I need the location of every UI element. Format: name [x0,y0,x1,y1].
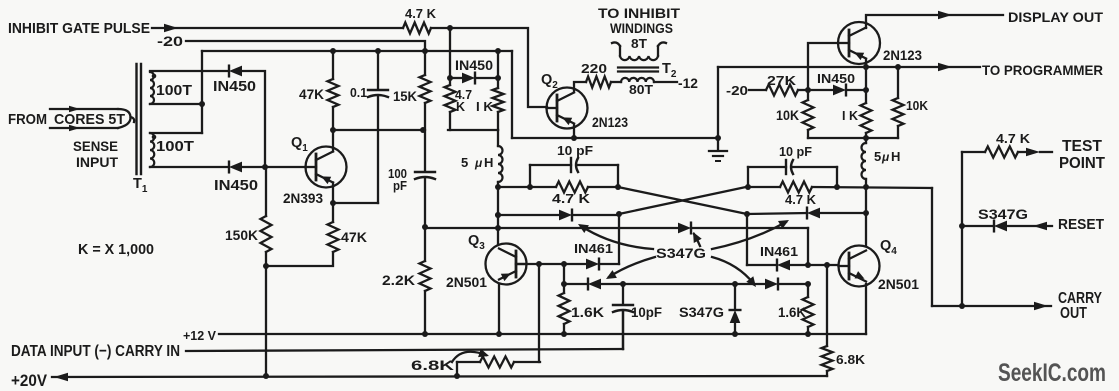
watermark [998,359,1106,387]
value label 4.7K left mid [552,191,591,206]
label Q2 [541,72,558,91]
svg-text:220: 220 [581,61,607,76]
wire to programmer rail [718,63,980,138]
junction bottom row 1.6K left [561,281,567,287]
wire Q1 collector [332,130,334,152]
svg-text:1.6K: 1.6K [778,305,806,320]
svg-text:+20V: +20V [11,372,47,390]
capacitor 10pF bottom [613,284,633,349]
diode 1N450 right [833,85,846,96]
wire Q4 base row [747,264,777,266]
wire right diode row [808,89,866,91]
svg-text:10K: 10K [906,98,929,113]
svg-text:I K: I K [842,108,859,123]
svg-text:IN461: IN461 [574,241,613,256]
diode S347G reset [994,221,1007,232]
junction 1.6K right bottom [805,331,811,337]
junction 6.8K on 20V [454,373,460,379]
capacitor 10pF left [530,158,618,187]
svg-text:INHIBIT GATE PULSE: INHIBIT GATE PULSE [8,20,150,37]
svg-text:SENSE: SENSE [73,138,118,154]
diode S347G middle [678,223,691,234]
value label S347G center [656,245,706,261]
value label 150K [225,227,258,243]
svg-text:150K: 150K [225,227,258,243]
svg-text:15K: 15K [393,89,417,104]
wire carry feed [931,188,933,306]
label 2N501 Q4 [878,276,919,292]
resistor 6.8K right [822,265,833,376]
svg-text:27K: 27K [767,73,797,88]
node TO INHIBIT WINDINGS label [598,5,680,36]
junction bottom row 10pF [620,281,626,287]
svg-text:pF: pF [393,178,407,193]
svg-text:DISPLAY OUT: DISPLAY OUT [1008,9,1103,25]
svg-text:CORES 5T: CORES 5T [54,111,125,128]
value label 10K b [906,98,929,113]
diode 1N450 box [462,73,475,84]
wire 1N461 left to corner [599,263,619,265]
transformer T2 primary 8T [612,42,666,60]
wire ground stub [717,138,719,150]
svg-text:4.7 K: 4.7 K [552,191,591,206]
svg-text:POINT: POINT [1059,155,1106,172]
wire net B row [748,186,780,188]
svg-text:10 pF: 10 pF [779,144,812,159]
callout arrow to upper-right diode [712,220,789,249]
node -20 left label [157,34,183,49]
inductor 5uH right [862,138,867,187]
junction 150K-47K [263,263,269,269]
wire carry out row [932,302,1051,310]
junction bottom row s347g [732,281,738,287]
junction 27K node [805,87,811,93]
node RESET label [1058,216,1104,233]
wire left diode row right [572,214,619,216]
wire Q1 collector row [333,129,423,131]
value label 4.7K right mid [785,192,817,207]
junction right diode row right [863,210,869,216]
wire reset row b [1007,222,1052,230]
svg-text:SeekIC.com: SeekIC.com [998,359,1106,387]
wire -20 rail [186,41,425,51]
wire left diode row [498,214,559,216]
resistor 15K [420,51,431,130]
wire cross diagonal D1 [619,187,746,214]
node DISPLAY OUT label [1008,9,1103,25]
svg-text:-20: -20 [157,34,183,49]
diode bottom right [765,279,778,290]
wire Q5 emitter [865,59,867,67]
svg-text:2.2K: 2.2K [382,272,415,288]
node +12V label [183,328,216,343]
node +20V label [11,372,47,390]
svg-text:WINDINGS: WINDINGS [610,20,673,36]
wire 1N461 right to base [790,264,838,266]
resistor 2.2K [420,227,431,334]
transformer T1 winding 100T upper [150,71,228,104]
svg-text:10pF: 10pF [631,304,662,320]
junction 10K b top [895,64,901,70]
diode 1N461 left [586,259,599,270]
svg-text:FROM: FROM [8,111,47,128]
svg-text:2N123: 2N123 [883,47,922,63]
label Q3 [468,233,485,252]
junction carry node [959,303,965,309]
junction 10pF left bottom [527,184,533,190]
svg-text:IN450: IN450 [213,79,256,95]
label T1 [133,176,148,195]
resistor 220 [586,77,611,88]
wire test point row [962,148,1052,156]
value label 47K lower [341,229,367,245]
value label 8T [631,36,647,51]
diode 1N450 upper-left [229,66,242,77]
resistor 10K a [803,90,814,138]
callout arrow to lower-left diode [606,257,655,279]
junction box left [447,75,453,81]
value label 0.1 [350,85,367,100]
diode 1N461 upper-left net [559,210,572,221]
callout arrow to middle diode [693,232,702,246]
junction net B inductor [863,184,869,190]
label Q4 [880,238,897,257]
svg-text:IN450: IN450 [214,178,258,194]
value label 5uH right [874,149,900,164]
value label 1N461 right [760,244,798,259]
svg-text:I K: I K [476,100,493,114]
wire center tap to top rail [201,51,203,133]
wire bottom row left [564,283,588,285]
svg-text:OUT: OUT [1060,305,1087,322]
value label 15K [393,89,417,104]
transistor Q2 [547,88,588,129]
value label 4.7K test [996,131,1031,146]
wire display out [866,11,1003,28]
capacitor 10pF right [748,160,837,187]
callout arrow 6.8K [452,349,489,362]
junction right diode row left [744,211,750,217]
svg-text:6.8K: 6.8K [411,357,454,373]
diode bottom left [588,279,601,290]
value label 1N461 left [574,241,613,256]
wire test point column [961,152,963,306]
label Q1 [291,135,308,154]
capacitor 100pF [415,130,435,227]
value label 10pF left [557,143,593,158]
resistor 4.7K top [403,23,431,34]
transformer T2 secondary 80T [611,78,677,82]
diode 1N461 right [777,260,790,271]
wire Q3 base row [516,263,586,265]
node -12 label [678,75,698,91]
resistor 6.8K left [457,357,540,377]
svg-text:47K: 47K [341,229,367,245]
wire box bottom rail [448,129,498,131]
svg-text:2N501: 2N501 [878,276,919,292]
value label 27K [767,73,797,88]
junction bottom row right [805,281,811,287]
wire reset row [962,225,994,227]
node TO PROGRAMMER label [982,62,1103,78]
svg-text:IN450: IN450 [817,71,855,86]
svg-text:-12: -12 [678,75,698,91]
resistor 10K b [893,67,904,138]
resistor 47K upper [328,51,339,130]
wire inhibit gate pulse line [152,24,403,32]
junction 100pF bottom [422,224,428,230]
wire Q5 base [808,43,838,90]
capacitor 0.1 [368,51,388,203]
junction net B left [745,184,751,190]
wire right col down [746,214,748,265]
node DATA INPUT label [11,343,180,360]
value label 10pF bottom [631,304,662,320]
svg-text:μ: μ [881,150,890,164]
svg-text:H: H [484,155,493,170]
node INHIBIT GATE PULSE label [8,20,150,37]
junction left diode row left [495,212,501,218]
junction box right [495,75,501,81]
wire Q4 collector vertical [865,187,867,246]
value label 100pF [388,166,407,193]
svg-text:2N501: 2N501 [446,274,487,290]
svg-text:TO INHIBIT: TO INHIBIT [598,5,680,21]
diode 1N450 pair right [807,208,820,219]
node SENSE INPUT label [73,138,118,170]
wire cross diagonal D2 [618,187,747,214]
label T2 [662,61,677,80]
label 2N393 [283,190,323,206]
polarity dot upper winding [152,74,157,79]
node -20 right label [726,84,748,98]
junction rail 47K [330,48,336,54]
wire net B row right [812,187,932,188]
value label 10K a [776,108,799,123]
value label S347G reset [978,206,1028,222]
resistor 1.6K right [803,284,814,334]
junction Q3 vert S row [495,225,501,231]
label 2N501 Q3 [446,274,487,290]
svg-text:-20: -20 [726,84,748,98]
resistor 4.7K left mid [556,182,588,193]
svg-text:47K: 47K [299,86,324,102]
node FROM CORES 5T label [8,111,125,128]
junction top 4.7K node [447,25,453,31]
wire inhibit line to Q2 base [431,28,547,107]
junction 1.6K left bottom [561,331,567,337]
wire Q3 emitter [498,284,500,334]
value label 6.8K left [411,357,454,373]
svg-text:K: K [456,100,465,114]
svg-text:IN450: IN450 [455,57,493,73]
node TEST POINT label [1059,138,1106,172]
junction Q5 emitter [863,64,869,70]
value label 100T lower [156,139,194,155]
resistor 1K box [493,51,504,130]
svg-text:8T: 8T [631,36,647,51]
svg-text:μ: μ [474,156,483,170]
junction Q3 emitter bottom [496,331,502,337]
junction left diode row right [616,211,622,217]
wire right diode row b [820,212,866,214]
svg-text:4.7 K: 4.7 K [785,192,817,207]
junction base node [262,164,268,170]
wire Q3 vertical [497,187,499,245]
junction rail 15K [422,48,428,54]
resistor 1.6K left [559,293,570,334]
value label 1N450 lower-left [214,178,258,194]
callout arrow to lower-right diode [712,257,756,287]
label 2N123 right [883,47,922,63]
value label 10pF right [779,144,812,159]
junction right diode-1K node [863,87,869,93]
junction S347G bottom node [732,331,738,337]
value label 1.6K right [778,305,806,320]
resistor 1K right [861,90,872,138]
ground symbol [709,151,727,161]
wire right end drop [807,228,809,265]
wire emitter to 0.1 cap [333,202,378,204]
value label 1.6K left [571,304,604,320]
junction 1K bottom [863,135,869,141]
svg-text:TO PROGRAMMER: TO PROGRAMMER [982,62,1103,78]
value label 4.7K box [455,88,472,114]
value label 100T upper [156,83,192,99]
value label 1N450 box [455,57,493,73]
value label 1N450 right [817,71,855,86]
value label 47K upper [299,86,324,102]
callout arrow to upper-left diode [578,224,653,249]
wire left col down [618,214,620,264]
svg-text:100T: 100T [156,139,194,155]
value label 1K right [842,108,859,123]
svg-text:6.8K: 6.8K [836,352,866,367]
svg-text:RESET: RESET [1058,216,1104,233]
wire emitter to diode node [865,67,867,90]
resistor 4.7K test [985,147,1018,158]
svg-text:2N123: 2N123 [592,114,628,130]
value label 1N450 upper-left [213,79,256,95]
junction center tap [199,101,205,107]
svg-text:4.7 K: 4.7 K [996,131,1031,146]
resistor 47K lower [266,203,339,266]
junction Q2 emitter [571,135,577,141]
wire bottom row mid [601,283,765,285]
wire rail drop to Q2 emitter line [511,51,513,138]
wire Q2 collector [574,82,586,92]
junction Q3 base a [536,261,542,267]
wire 1N450 box row [450,77,498,79]
resistor 4.7K right mid [780,182,812,193]
svg-text:10 pF: 10 pF [557,143,593,158]
wire bottom row right [778,283,808,285]
transistor Q1 [306,147,347,188]
svg-text:DATA INPUT (−) CARRY IN: DATA INPUT (−) CARRY IN [11,343,180,360]
svg-text:S347G: S347G [679,304,724,320]
svg-text:IN461: IN461 [760,244,798,259]
svg-text:2N393: 2N393 [283,190,323,206]
junction reset node [959,223,965,229]
inductor 5uH left [498,130,503,187]
junction Q3 base b [561,261,567,267]
svg-text:0.1: 0.1 [350,85,367,100]
svg-text:4.7 K: 4.7 K [405,7,436,21]
polarity dot lower winding [152,135,157,140]
junction net A right [615,184,621,190]
svg-text:TEST: TEST [1062,138,1103,155]
value label 80T [629,82,653,97]
svg-text:H: H [891,149,900,164]
wire +12V rail [219,333,866,335]
diode S347G bottom [730,284,741,334]
svg-text:5: 5 [461,155,468,170]
wire Q1 emitter [332,183,334,204]
wire 1.6K left vertical [563,264,565,293]
wire 4.7K left to right node [588,186,618,188]
wire Q2 emitter [573,124,575,138]
svg-text:1.6K: 1.6K [571,304,604,320]
wire Q1 base [243,166,306,168]
transformer T1 winding 100T lower [150,133,228,167]
svg-text:100T: 100T [156,83,192,99]
junction 2.2K bottom [422,331,428,337]
junction Q1 collector [330,127,336,133]
junction Q4 base b [824,262,830,268]
wire Q2 emitter rail [512,137,718,139]
value label S347G bottom [679,304,724,320]
resistor 27K [766,85,808,96]
value label 5uH left [461,155,493,170]
wire 6.8K left riser [538,264,540,362]
svg-text:INPUT: INPUT [76,154,118,170]
junction rail 0.1 [375,48,381,54]
junction Q1 emitter [330,200,336,206]
label 2N123 Q2 [592,114,628,130]
wire +20V rail [52,373,827,381]
svg-text:80T: 80T [629,82,653,97]
junction net A left [495,184,501,190]
svg-text:5: 5 [874,149,881,164]
wire net A row [498,186,556,188]
value label 6.8K right [836,352,866,367]
node CARRY OUT label [1058,290,1103,322]
value label 220 [581,61,607,76]
value label 4.7K top [405,7,436,21]
svg-text:+12 V: +12 V [183,328,216,343]
value label 1K box [476,100,493,114]
wire top rail [202,50,512,52]
wire Q4 emitter [865,284,867,334]
wire -20 stub [749,89,766,91]
junction Q4 base a [805,262,811,268]
transformer T2 core [618,68,658,72]
wire upper diode to vertical [242,71,265,167]
resistor 150K [261,167,272,376]
wire sense input pair [50,106,134,132]
wire right diode row [747,213,807,214]
junction ground node [715,135,721,141]
junction rail 1K box [495,48,501,54]
resistor 4.7K box [445,78,456,130]
junction 15K-100pF node [420,127,426,133]
transformer T1 core [137,64,142,174]
svg-text:10K: 10K [776,108,799,123]
wire data rail [186,312,623,351]
junction 150K on 20V [263,373,269,379]
wire 4.7K node down to 1N450 box [449,28,451,78]
junction Q3 vert diode row [495,212,501,218]
